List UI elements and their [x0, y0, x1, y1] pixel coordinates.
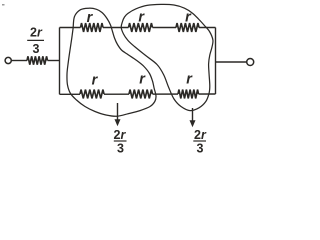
input terminal (left) — [5, 57, 11, 63]
svg-text:2r: 2r — [194, 128, 207, 142]
stray mark — [2, 4, 5, 6]
wire: right bus to output terminal — [216, 61, 247, 63]
resistor r (R-bot1) — [80, 90, 104, 99]
label 2r/3 (arrow 1) — [114, 128, 127, 156]
resistor r (R-bot3) — [178, 90, 199, 99]
resistor r (R-top1) — [81, 23, 104, 32]
svg-text:3: 3 — [117, 142, 124, 156]
resistor 2r/3 (input series resistor) — [27, 56, 48, 64]
svg-text:3: 3 — [197, 142, 204, 156]
wire: bottom rail — [60, 93, 216, 95]
wire: top rail — [60, 27, 216, 29]
svg-text:2r: 2r — [30, 26, 43, 40]
resistor r (R-top3) — [176, 23, 199, 32]
arrow terminal 2 (down from loop B) — [192, 108, 194, 122]
arrow terminal 1 (down from loop A) — [117, 103, 119, 121]
wire: resistor 2r/3 to left bus — [48, 60, 60, 62]
resistor r (R-bot2) — [129, 90, 153, 99]
node loop B (encloses top-right two r and bottom-right r) — [121, 4, 213, 110]
wire: left terminal to resistor 2r/3 — [11, 60, 27, 62]
label 2r/3 (arrow 2) — [194, 128, 207, 156]
node loop A (encloses top-left r and bottom-left two r) — [67, 8, 156, 116]
wire: right bus vertical — [215, 28, 217, 95]
svg-text:3: 3 — [33, 42, 40, 56]
resistor r (R-top2) — [129, 23, 153, 32]
wire: left bus vertical — [59, 28, 61, 95]
label 2r/3 for input resistor — [30, 26, 43, 57]
output terminal (right) — [247, 59, 254, 66]
svg-text:2r: 2r — [114, 128, 127, 142]
